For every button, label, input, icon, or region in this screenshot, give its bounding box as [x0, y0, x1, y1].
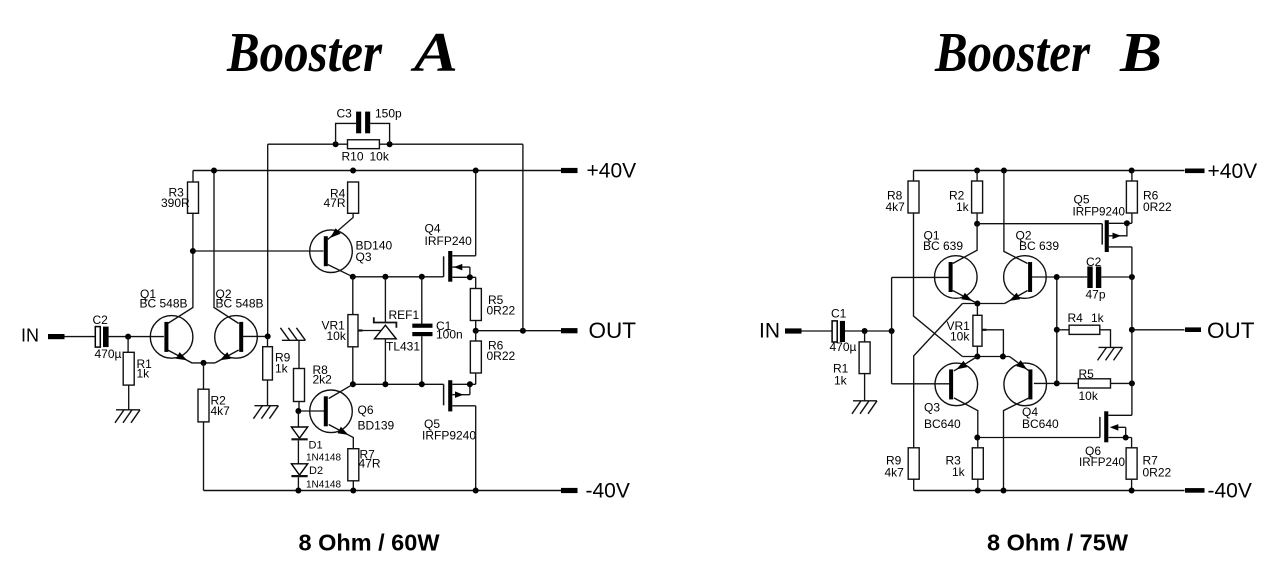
wire R8 to Q6 base node — [298, 402, 324, 412]
node TL431 anode lower — [382, 381, 388, 387]
node Q5 source/substrate (B) — [1124, 220, 1130, 226]
svg-text:-40V: -40V — [586, 480, 630, 503]
wire R1 top — [127, 337, 129, 353]
svg-text:4k7: 4k7 — [886, 200, 906, 214]
node Q4 drain on rail — [473, 168, 479, 174]
node R8/Q6 base/D1 — [295, 408, 301, 414]
svg-text:Q6: Q6 — [358, 403, 374, 417]
Q3 emitter arrow (B) — [957, 361, 968, 370]
node Q4 source/substrate — [467, 274, 473, 280]
Q6 collector line — [329, 384, 353, 398]
wire VR1 wiper to TL431 — [363, 330, 382, 332]
svg-text:Booster: Booster — [226, 22, 383, 84]
svg-text:1k: 1k — [137, 366, 151, 380]
Q2 emitter arrow (B) — [1009, 293, 1020, 301]
node R6 on rail (B) — [1129, 168, 1135, 174]
mosfet Q5 IRFP9240 (B) — [1073, 193, 1132, 253]
svg-text:47R: 47R — [359, 457, 381, 471]
svg-text:A: A — [410, 22, 458, 84]
svg-text:47R: 47R — [324, 196, 346, 210]
svg-text:0R22: 0R22 — [1143, 200, 1172, 214]
OUT terminal (A) — [561, 318, 636, 343]
capacitor C1 470u electrolytic (B) — [830, 307, 857, 355]
resistor R9 4k7 (B) — [885, 448, 920, 480]
wire R7 to -40V rail — [352, 481, 354, 491]
capacitor C2 470u electrolytic — [93, 313, 122, 361]
transistor Q3 BC640 — [924, 363, 978, 431]
svg-text:C3: C3 — [337, 107, 353, 121]
Q4 emitter line (B) — [1010, 357, 1030, 371]
node R3 on rail (B) — [975, 488, 981, 494]
svg-text:IRFP9240: IRFP9240 — [422, 429, 476, 443]
wire R3 top to rail — [192, 171, 194, 183]
inverted ground above R8 — [280, 328, 305, 341]
svg-text:D1: D1 — [309, 440, 323, 452]
svg-text:Q3: Q3 — [356, 250, 372, 264]
resistor R8 2k2 — [294, 363, 333, 402]
wire VR1 top (B) — [976, 304, 978, 316]
node C1 bottom — [419, 381, 425, 387]
Q2 emitter arrow — [220, 352, 231, 360]
node R10 left — [333, 141, 339, 147]
input terminal IN (B) — [759, 319, 802, 342]
mosfet Q5 IRFP9240 — [422, 380, 476, 442]
svg-text:1k: 1k — [956, 200, 970, 214]
resistor R7 0R22 (B) — [1126, 448, 1171, 480]
Q6 emitter line — [329, 425, 354, 449]
svg-text:+40V: +40V — [1208, 160, 1258, 183]
resistor R4 1k (B) — [1057, 311, 1105, 334]
-40V terminal (B) — [1185, 480, 1252, 503]
title Booster B text — [934, 22, 1162, 84]
svg-text:0R22: 0R22 — [487, 349, 516, 363]
Q3 collector line — [328, 265, 353, 277]
node VR1 top / Q1 emitter (B) — [974, 301, 980, 307]
wire R9 diagonal to VR1 top line (B) — [914, 304, 963, 448]
transistor Q4 BC640 — [1004, 363, 1059, 431]
svg-text:BC 639: BC 639 — [923, 239, 963, 253]
svg-text:Q3: Q3 — [924, 401, 940, 415]
svg-text:B: B — [1119, 22, 1162, 84]
-40V rail (A) — [204, 490, 562, 492]
Q2 emitter line — [215, 350, 239, 363]
svg-text:470µ: 470µ — [95, 347, 122, 361]
node Q6 source/substrate (B) — [1123, 435, 1129, 441]
transistor Q2 BC548B — [215, 287, 264, 358]
node Q1 Q2 emitter junction — [201, 360, 207, 366]
capacitor C2 47p (B) — [1057, 255, 1132, 302]
svg-text:R5: R5 — [1079, 367, 1095, 381]
diode D2 1N4148 — [291, 464, 341, 491]
wire R4 to ground (B) — [1100, 330, 1111, 348]
feedback line R10 (A) — [268, 143, 523, 145]
node Q2 base / R9 top — [265, 333, 271, 339]
Q1 emitter arrow — [176, 352, 187, 360]
transistor Q2 BC639 — [1004, 229, 1060, 299]
svg-text:BC640: BC640 — [924, 417, 961, 431]
svg-text:IN: IN — [21, 326, 39, 346]
Q2 base wire — [242, 335, 267, 337]
node Q2 collector on rail — [211, 168, 217, 174]
resistor R8 4k7 (B) — [886, 181, 920, 214]
Q3 emitter arrow — [330, 228, 340, 238]
wire R9 top — [267, 336, 269, 346]
wire R2 to gate line (B) — [976, 213, 978, 224]
potentiometer VR1 10k (A) — [322, 315, 363, 347]
node VR1 bottom / Q3 emitter (B) — [974, 354, 980, 360]
-40V terminal (A) — [561, 480, 630, 503]
node R2 on rail (B) — [974, 168, 980, 174]
svg-text:10k: 10k — [370, 150, 390, 164]
caption 8 Ohm / 60W — [298, 530, 440, 556]
wire rail to R2 (B) — [976, 171, 978, 182]
svg-text:C2: C2 — [1086, 255, 1102, 269]
transistor Q3 BD140 — [310, 230, 393, 273]
wire R2 to -40V rail — [203, 422, 205, 491]
svg-text:0R22: 0R22 — [487, 304, 516, 318]
wire R6 to Q5 source — [475, 373, 477, 384]
node R7 on rail (B) — [1129, 488, 1135, 494]
title Booster A text — [226, 22, 458, 84]
wire C2 to Q1 base — [109, 336, 164, 338]
wire Q4 drain to rail — [475, 171, 477, 256]
capacitor C3 150p — [336, 107, 402, 145]
svg-text:+40V: +40V — [587, 160, 637, 183]
+40V rail (B) — [914, 170, 1185, 172]
svg-text:R4: R4 — [1068, 311, 1084, 325]
Q1 collector line (B) — [953, 224, 977, 264]
svg-text:10k: 10k — [327, 329, 347, 343]
OUT line (A) — [476, 330, 561, 332]
+40V terminal (B) — [1185, 160, 1257, 183]
wire rail to R8 (B) — [913, 171, 915, 182]
wire R1 to ground (B) — [864, 374, 866, 401]
wire Q4 source to R5 — [475, 277, 477, 288]
ground below R9 — [253, 406, 278, 419]
resistor R5 0R22 — [470, 289, 515, 321]
svg-text:1N4148: 1N4148 — [306, 453, 341, 464]
Q4 collector line (B) — [1004, 398, 1030, 491]
resistor R4 47R — [324, 182, 359, 213]
resistor R9 1k (A) — [263, 347, 291, 380]
resistor R5 10k (B) — [1057, 367, 1132, 403]
wire R6 to rail (B) — [1131, 171, 1133, 182]
svg-text:470µ: 470µ — [830, 340, 857, 354]
VR1 bottom line (B) — [962, 356, 1009, 358]
Q1 emitter line (B) — [953, 291, 978, 304]
+40V terminal (A) — [561, 160, 636, 183]
OUT column (B) — [1131, 247, 1133, 415]
wire IN to C2 — [65, 336, 96, 338]
Q1 collector line — [168, 213, 193, 323]
upper gate line VR1/TL431/C1 to Q4 — [353, 276, 444, 278]
node C1 top — [419, 274, 425, 280]
transistor Q6 BD139 — [310, 390, 395, 433]
mosfet Q4 IRFP240 — [425, 222, 476, 282]
svg-text:8 Ohm / 75W: 8 Ohm / 75W — [987, 530, 1129, 556]
node C2 left / Q2 base (B) — [1054, 274, 1060, 280]
node Q2 collector on rail (B) — [1001, 168, 1007, 174]
resistor R6 0R22 (B) — [1126, 181, 1172, 214]
Q4 emitter arrow (B) — [1016, 360, 1027, 369]
svg-text:8 Ohm / 60W: 8 Ohm / 60W — [298, 530, 440, 556]
resistor R2 1k (B) — [949, 181, 983, 214]
node D2 on rail — [295, 488, 301, 494]
node R3/Q6 gate (B) — [974, 435, 980, 441]
node input column (B) — [889, 328, 895, 334]
wire D2 to -40V rail — [297, 477, 299, 490]
svg-text:100n: 100n — [436, 328, 463, 342]
resistor R3 390R — [161, 182, 199, 213]
svg-text:BC 639: BC 639 — [1019, 239, 1059, 253]
Q2 collector line — [214, 171, 239, 324]
resistor R3 1k (B) — [946, 448, 984, 479]
wire Q3 base line — [193, 250, 324, 252]
node R1 junction (B) — [862, 328, 868, 334]
svg-text:4k7: 4k7 — [885, 466, 905, 480]
svg-text:1N4148: 1N4148 — [306, 480, 341, 491]
svg-text:10k: 10k — [950, 330, 970, 344]
svg-text:1k: 1k — [1091, 311, 1105, 325]
feedback column right to OUT — [522, 144, 524, 331]
svg-text:IN: IN — [759, 319, 780, 342]
svg-text:OUT: OUT — [589, 318, 637, 343]
Q3 emitter line (B) — [954, 357, 978, 371]
wire R4 to Q3 emitter — [328, 213, 353, 239]
wire R1 to ground — [128, 385, 130, 410]
wire C1 to input column (B) — [845, 330, 892, 332]
svg-text:Booster: Booster — [934, 22, 1091, 84]
input terminal IN (A) — [21, 326, 65, 346]
OUT line (B) — [1132, 329, 1185, 331]
svg-text:1k: 1k — [834, 374, 848, 388]
svg-text:REF1: REF1 — [389, 308, 420, 322]
node R7 on rail — [350, 488, 356, 494]
svg-text:BC 548B: BC 548B — [216, 297, 264, 311]
wire ground to R8 — [298, 340, 300, 368]
gate line to Q6 (B) — [978, 437, 1100, 439]
wire VR1 bottom (B) — [976, 346, 978, 356]
wire R3 to rail (B) — [977, 479, 979, 490]
Q6 emitter arrow — [337, 427, 348, 435]
C2/R4/R5 left column (B) — [1056, 277, 1058, 383]
node R10 right — [387, 141, 393, 147]
resistor R6 0R22 — [470, 339, 515, 374]
node Q5 drain on rail — [473, 488, 479, 494]
svg-text:IRFP240: IRFP240 — [1079, 455, 1125, 469]
wire input to Q3 base (B) — [892, 383, 950, 385]
svg-text:BC640: BC640 — [1022, 417, 1059, 431]
wire emitters to R2 — [203, 363, 205, 389]
diode D1 1N4148 — [291, 427, 341, 464]
wire R9 to rail (B) — [913, 479, 915, 490]
potentiometer VR1 10k (B) — [947, 315, 987, 346]
svg-text:4k7: 4k7 — [211, 404, 231, 418]
svg-text:C2: C2 — [93, 313, 109, 327]
wire input to Q1 base (B) — [892, 276, 950, 278]
feedback column left to Q2 base — [267, 144, 269, 336]
svg-text:BC 548B: BC 548B — [140, 297, 188, 311]
wire D1 to D2 — [297, 440, 299, 463]
input column (B) — [891, 277, 893, 383]
node R2/Q1 collector/Q5 gate (B) — [974, 221, 980, 227]
Q1 emitter line — [168, 350, 215, 363]
svg-text:150p: 150p — [375, 107, 402, 121]
VR1 top line (B) — [962, 303, 1004, 305]
svg-text:C1: C1 — [831, 307, 847, 321]
resistor R2 4k7 — [198, 389, 230, 422]
node Q5 source/substrate — [467, 381, 473, 387]
Q2 emitter line (B) — [1005, 291, 1028, 304]
+40V rail (A) — [193, 170, 561, 172]
Q3 collector line (B) — [954, 398, 978, 448]
transistor Q1 BC639 — [923, 229, 977, 299]
ground below R4 (B) — [1098, 347, 1123, 360]
node R3/Q1 collector to Q3 base — [190, 248, 196, 254]
svg-text:R10: R10 — [342, 150, 364, 164]
Q2 base wire (B) — [1031, 276, 1057, 278]
Q2 collector line (B) — [1004, 171, 1028, 264]
resistor R1 1k — [123, 352, 152, 385]
ground below R1 (B) — [852, 401, 877, 414]
mosfet Q6 IRFP240 (B) — [1079, 411, 1132, 469]
resistor R10 10k — [342, 140, 390, 164]
node R5 right (B) — [1129, 380, 1135, 386]
svg-text:OUT: OUT — [1207, 318, 1255, 343]
wire R6 to Q5 source (B) — [1131, 213, 1133, 223]
wire OUT to R6 — [475, 331, 477, 341]
resistor R1 1k (B) — [833, 342, 870, 388]
ground below R1 — [115, 410, 140, 423]
svg-text:0R22: 0R22 — [1143, 466, 1172, 480]
wire R9 to ground — [267, 380, 269, 406]
wire R8 down and diagonal to VR1 bottom line — [914, 213, 963, 357]
node VR1 bottom / Q6 collector — [350, 381, 356, 387]
node TL431 cathode upper — [382, 274, 388, 280]
-40V rail (B) — [914, 490, 1185, 492]
svg-text:390R: 390R — [161, 196, 190, 210]
wire R7 to rail (B) — [1131, 479, 1133, 490]
svg-text:1k: 1k — [275, 362, 289, 376]
lower gate line Q6/VR1/TL431/C1 to Q5 — [353, 383, 444, 385]
gate line to Q5 (B) — [977, 223, 1102, 225]
svg-text:IRFP240: IRFP240 — [425, 234, 473, 248]
wire R5 to OUT node — [475, 321, 477, 331]
wire VR1 bottom — [352, 347, 354, 385]
node OUT junction (B) — [1129, 327, 1135, 333]
reference REF1 TL431 — [374, 277, 421, 385]
wire IN to C1 (B) — [802, 330, 833, 332]
node R4 on rail — [350, 168, 356, 174]
svg-text:10k: 10k — [1079, 389, 1099, 403]
node Q4 collector on rail (B) — [1001, 488, 1007, 494]
resistor R7 47R — [348, 448, 381, 481]
svg-text:IRFP9240: IRFP9240 — [1073, 205, 1126, 219]
node R5/R6 OUT junction — [473, 328, 479, 334]
node R4 left (B) — [1054, 327, 1060, 333]
caption 8 Ohm / 75W — [987, 530, 1129, 556]
svg-text:2k2: 2k2 — [313, 373, 333, 387]
node R5 left / Q4 base (B) — [1054, 380, 1060, 386]
wire node to D1 — [297, 411, 299, 427]
wire Q5 drain to -40V rail — [475, 406, 477, 491]
svg-text:1k: 1k — [952, 465, 966, 479]
svg-text:-40V: -40V — [1208, 480, 1252, 503]
wire VR1 wiper to bottom line (B) — [987, 330, 1004, 357]
Q4 base wire (B) — [1034, 382, 1057, 384]
Q1 emitter arrow (B) — [961, 293, 972, 301]
node Q3 collector / VR1 top — [350, 274, 356, 280]
OUT terminal (B) — [1185, 318, 1255, 343]
node C2/R1 junction — [125, 334, 131, 340]
svg-text:BD139: BD139 — [358, 419, 395, 433]
capacitor C1 100n — [412, 277, 462, 385]
wire Q6 source to R7 (B) — [1131, 438, 1133, 448]
svg-text:D2: D2 — [309, 465, 323, 477]
wire R1 top (B) — [864, 331, 866, 342]
node wiper junction (B) — [1000, 354, 1006, 360]
svg-text:47p: 47p — [1086, 288, 1106, 302]
node C2 right (B) — [1129, 274, 1135, 280]
svg-text:TL431: TL431 — [386, 340, 420, 354]
node feedback tap on OUT — [520, 328, 526, 334]
transistor Q1 BC548B — [140, 287, 193, 358]
wire VR1 top — [352, 277, 354, 315]
